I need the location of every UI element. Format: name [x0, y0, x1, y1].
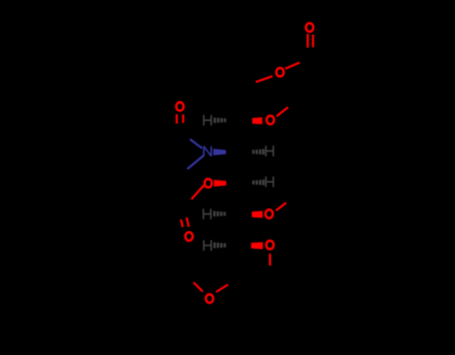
bond C-N (acyl C to N) [190, 139, 202, 148]
bond C3-H hash (row2) [252, 149, 264, 155]
bond C=O double (row3 acetyl) [181, 218, 189, 228]
bond C=O double (top acetate) [308, 34, 313, 48]
bond O-C(O) (row3 OAc ester O to carbonyl C) [191, 185, 203, 199]
bond C4-H hash (row3) [252, 180, 264, 186]
bond C=O double (N-acyl) [177, 114, 184, 123]
bond C6-O wedge (row5, to ring O) [251, 242, 263, 249]
atom H (C2, row1 left) [204, 115, 211, 126]
atom O (top acetate ester O) [276, 68, 283, 77]
atom O (row3 OAc ester O) [205, 179, 212, 188]
bond O2-C left (up-left stub) [194, 282, 203, 291]
bond O-CH3 (row1 OMe stub) [277, 107, 288, 116]
bond C5-H hash (row4) [213, 211, 226, 216]
bond C5-O wedge (row4, to OMe) [252, 211, 263, 218]
bond O1-C acetal (down stub) [269, 254, 271, 266]
atom N [204, 146, 211, 156]
bond O-CH3 (row4 OMe stub) [276, 203, 286, 211]
bond C2-O wedge (row1, to OMe) [252, 117, 262, 124]
atom O (row5 ring O1) [266, 241, 273, 250]
atom O (top acetate carbonyl O) [306, 23, 313, 32]
atom H (C3, row2 right) [266, 146, 273, 157]
atom H (C6, row5 left) [204, 240, 211, 251]
bond C6-H hash (row5) [213, 242, 226, 248]
bond C4-O wedge (row3, to OAc) [214, 180, 226, 187]
atom O (row4 OMe) [265, 210, 272, 219]
bond N-CH3 [187, 156, 203, 169]
bond O-C1 (ester O to CH2) [256, 76, 273, 82]
atom O (bottom ring O2) [206, 294, 213, 303]
atom O (row3 acetyl carbonyl O) [185, 232, 192, 241]
atom H (C4, row3 right) [266, 177, 273, 188]
bond C2-H hash (row1) [214, 118, 227, 123]
bond N-C3 wedge [213, 149, 226, 156]
bond C-O ester (top acetate, carbonyl C to ester O) [285, 63, 300, 69]
atom O (N-acyl carbonyl O) [176, 102, 183, 111]
atom O (row1 OMe) [267, 116, 274, 125]
bond O2-C right (up-right stub) [216, 285, 228, 292]
atom H (C5, row4 left) [203, 209, 210, 220]
